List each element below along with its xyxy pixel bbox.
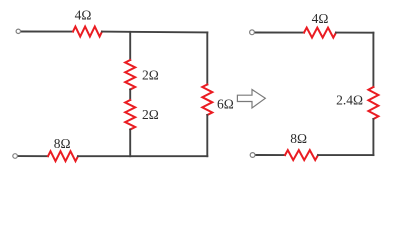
resistor 6ohm [202,85,212,116]
svg-text:4Ω: 4Ω [312,11,329,26]
wire top mid to right corner [102,31,207,34]
resistor 4ohm right [304,28,336,38]
wire right branch upper (right circuit) [372,33,374,87]
resistor 8ohm right [285,150,318,160]
wire top-left horizontal [21,31,73,33]
svg-text:2.4Ω: 2.4Ω [336,93,363,108]
wire bottom-left horizontal [18,155,48,157]
wire right branch lower (left circuit) [206,115,208,156]
wire bottom to right corner [78,155,207,157]
svg-text:4Ω: 4Ω [75,8,92,23]
arrow implication [237,90,265,109]
wire right branch lower (right circuit) [372,119,374,155]
terminal top-right [250,30,255,35]
wire middle branch lower [129,130,131,157]
wire bottom-right to corner [318,154,373,156]
terminal bottom-right [250,153,255,158]
wire middle between resistors [129,90,131,101]
wire top-right to corner [336,32,373,34]
wire right branch upper (left circuit) [206,32,208,84]
svg-text:8Ω: 8Ω [290,131,307,146]
resistor 2ohm upper [125,60,135,90]
terminal bottom-left [13,154,18,159]
resistor 2ohm lower [125,100,135,130]
svg-text:8Ω: 8Ω [54,136,71,151]
resistor 4ohm left [73,27,102,37]
wire middle branch upper [129,32,131,60]
wire top-right horizontal [255,32,304,34]
wire bottom-right from terminal [255,154,285,156]
svg-text:6Ω: 6Ω [217,96,234,111]
svg-text:2Ω: 2Ω [142,107,159,122]
resistor 2.4ohm [368,87,378,119]
resistor 8ohm left [48,151,78,161]
svg-text:2Ω: 2Ω [142,68,159,83]
terminal top-left [16,29,20,33]
